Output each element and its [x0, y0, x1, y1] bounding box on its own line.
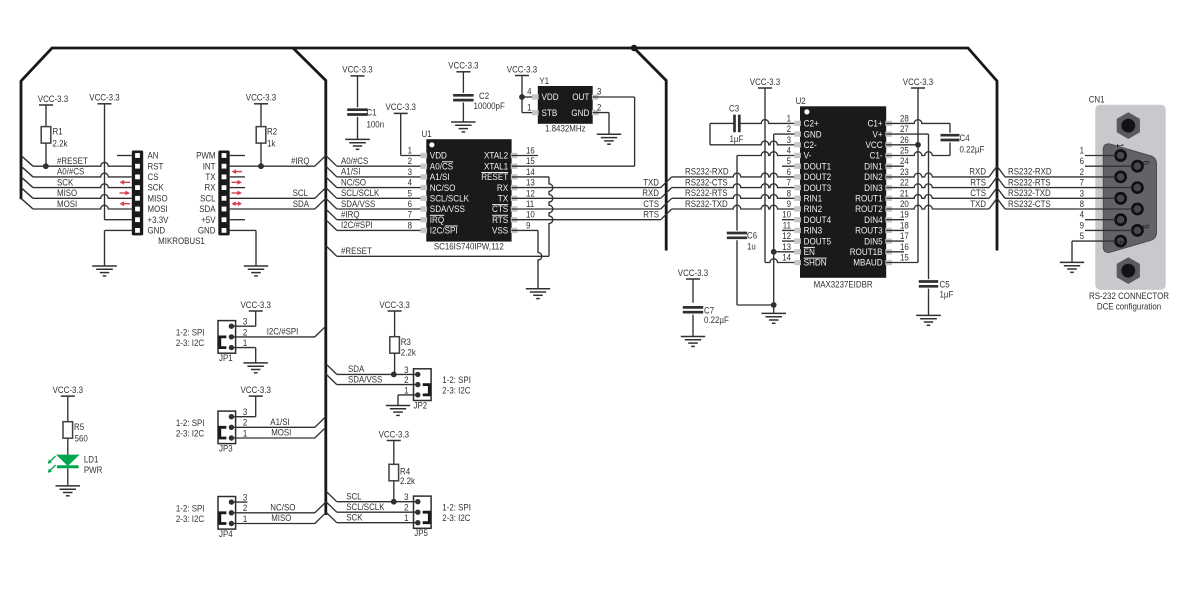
svg-text:4: 4 — [408, 178, 412, 188]
svg-text:1-2: SPI: 1-2: SPI — [176, 418, 205, 428]
svg-text:SCK: SCK — [148, 183, 164, 193]
svg-text:1: 1 — [243, 338, 247, 348]
svg-text:DIN2: DIN2 — [864, 172, 883, 182]
svg-text:ROUT1B: ROUT1B — [850, 247, 883, 257]
svg-text:TXD: TXD — [970, 199, 986, 209]
svg-text:9: 9 — [1141, 224, 1151, 228]
svg-text:DOUT1: DOUT1 — [804, 161, 832, 171]
svg-text:7: 7 — [787, 178, 791, 188]
svg-text:3: 3 — [597, 87, 601, 97]
svg-text:A0/CS: A0/CS — [430, 161, 453, 171]
svg-text:MOSI: MOSI — [148, 204, 168, 214]
svg-text:10: 10 — [782, 210, 791, 220]
svg-text:12: 12 — [782, 231, 791, 241]
svg-text:C6: C6 — [747, 230, 757, 240]
svg-text:5: 5 — [1115, 240, 1125, 244]
svg-text:12: 12 — [526, 188, 535, 198]
svg-text:19: 19 — [900, 210, 909, 220]
svg-text:EN: EN — [804, 247, 815, 257]
svg-text:CTS: CTS — [643, 199, 659, 209]
svg-text:1µF: 1µF — [940, 290, 954, 300]
svg-text:13: 13 — [782, 242, 791, 252]
svg-text:A1/SI: A1/SI — [270, 417, 289, 427]
svg-text:10: 10 — [526, 210, 535, 220]
svg-text:#RESET: #RESET — [57, 156, 88, 166]
svg-text:SCL/SCLK: SCL/SCLK — [346, 502, 384, 512]
svg-text:A1/SI: A1/SI — [430, 172, 450, 182]
svg-text:ROUT2: ROUT2 — [855, 204, 883, 214]
svg-text:SCL: SCL — [200, 193, 215, 203]
svg-text:SDA: SDA — [293, 199, 309, 209]
svg-text:3: 3 — [243, 317, 247, 327]
svg-text:#RESET: #RESET — [341, 246, 372, 256]
svg-text:A0/#CS: A0/#CS — [57, 167, 84, 177]
svg-text:2: 2 — [408, 156, 412, 166]
svg-text:OUT: OUT — [572, 92, 590, 102]
svg-text:2: 2 — [597, 102, 601, 112]
svg-text:#IRQ: #IRQ — [291, 156, 310, 166]
svg-text:SCK: SCK — [57, 177, 73, 187]
svg-text:RTS: RTS — [970, 177, 986, 187]
svg-text:20: 20 — [900, 199, 909, 209]
svg-text:GND: GND — [804, 129, 822, 139]
svg-text:SDA/VSS: SDA/VSS — [430, 204, 465, 214]
svg-text:SCK: SCK — [346, 512, 362, 522]
svg-text:1: 1 — [408, 146, 412, 156]
svg-text:VCC-3.3: VCC-3.3 — [38, 94, 68, 104]
svg-text:RTS: RTS — [492, 215, 508, 225]
svg-text:RS232-TXD: RS232-TXD — [1008, 188, 1051, 198]
svg-text:VCC-3.3: VCC-3.3 — [241, 385, 271, 395]
svg-text:8: 8 — [408, 220, 412, 230]
svg-text:0.22µF: 0.22µF — [704, 315, 729, 325]
svg-text:5: 5 — [408, 188, 412, 198]
svg-text:RTS: RTS — [643, 210, 659, 220]
svg-text:RS232-RXD: RS232-RXD — [1008, 167, 1052, 177]
svg-text:RS232-RTS: RS232-RTS — [1008, 177, 1051, 187]
svg-text:RST: RST — [148, 161, 164, 171]
svg-text:DCE configuration: DCE configuration — [1097, 301, 1161, 311]
svg-text:RIN1: RIN1 — [804, 194, 823, 204]
svg-text:RIN3: RIN3 — [804, 226, 823, 236]
svg-text:2.2k: 2.2k — [53, 139, 68, 149]
svg-text:1k: 1k — [267, 139, 276, 149]
svg-text:SHDN: SHDN — [804, 258, 827, 268]
svg-text:24: 24 — [900, 156, 909, 166]
svg-text:AN: AN — [148, 151, 159, 161]
svg-text:21: 21 — [900, 188, 909, 198]
svg-text:1: 1 — [404, 513, 408, 523]
svg-text:RS232-CTS: RS232-CTS — [1008, 199, 1051, 209]
svg-text:15: 15 — [900, 253, 909, 263]
svg-text:RS-232 CONNECTOR: RS-232 CONNECTOR — [1089, 291, 1169, 301]
svg-text:28: 28 — [900, 113, 909, 123]
svg-text:3: 3 — [404, 492, 408, 502]
svg-text:A0/#CS: A0/#CS — [341, 156, 368, 166]
svg-text:25: 25 — [900, 146, 909, 156]
svg-text:6: 6 — [408, 199, 412, 209]
svg-text:VCC: VCC — [866, 140, 884, 150]
svg-text:JP1: JP1 — [219, 353, 233, 363]
svg-text:DOUT3: DOUT3 — [804, 183, 832, 193]
svg-text:26: 26 — [900, 135, 909, 145]
svg-text:CTS: CTS — [970, 188, 986, 198]
svg-text:100n: 100n — [367, 119, 385, 129]
svg-text:3: 3 — [243, 493, 247, 503]
svg-text:VCC-3.3: VCC-3.3 — [903, 77, 933, 87]
svg-text:2.2k: 2.2k — [401, 348, 416, 358]
svg-text:R4: R4 — [400, 466, 410, 476]
svg-text:NC/SO: NC/SO — [341, 177, 366, 187]
svg-text:C1: C1 — [367, 107, 377, 117]
svg-text:+5V: +5V — [201, 215, 215, 225]
svg-text:1-2: SPI: 1-2: SPI — [176, 327, 205, 337]
svg-text:3: 3 — [787, 135, 791, 145]
svg-text:CS: CS — [148, 172, 159, 182]
svg-text:MOSI: MOSI — [57, 199, 77, 209]
svg-text:16: 16 — [526, 146, 535, 156]
svg-text:#IRQ: #IRQ — [341, 210, 360, 220]
svg-text:13: 13 — [526, 178, 535, 188]
svg-text:CTS: CTS — [492, 204, 508, 214]
svg-text:DIN4: DIN4 — [864, 215, 883, 225]
svg-text:XTAL1: XTAL1 — [484, 161, 508, 171]
svg-text:VCC-3.3: VCC-3.3 — [379, 429, 409, 439]
svg-text:16: 16 — [900, 242, 909, 252]
svg-text:8: 8 — [787, 188, 791, 198]
svg-text:TX: TX — [205, 172, 215, 182]
svg-text:R3: R3 — [401, 337, 411, 347]
svg-text:14: 14 — [526, 167, 535, 177]
svg-text:1.8432MHz: 1.8432MHz — [545, 124, 586, 134]
svg-text:VSS: VSS — [492, 226, 508, 236]
svg-text:VCC-3.3: VCC-3.3 — [750, 77, 780, 87]
svg-text:1: 1 — [243, 428, 247, 438]
svg-text:RS232-RXD: RS232-RXD — [685, 167, 729, 177]
svg-text:IRQ: IRQ — [430, 215, 444, 225]
svg-text:9: 9 — [787, 199, 791, 209]
svg-text:C2: C2 — [479, 91, 489, 101]
svg-text:6: 6 — [1141, 161, 1151, 165]
svg-text:ROUT3: ROUT3 — [855, 226, 883, 236]
svg-text:RS232-RTS: RS232-RTS — [685, 188, 728, 198]
svg-text:14: 14 — [782, 253, 791, 263]
svg-text:1u: 1u — [747, 242, 756, 252]
svg-text:1: 1 — [404, 385, 408, 395]
svg-text:VCC-3.3: VCC-3.3 — [678, 268, 708, 278]
svg-text:2: 2 — [787, 124, 791, 134]
svg-text:R2: R2 — [267, 127, 277, 137]
svg-text:DOUT2: DOUT2 — [804, 172, 832, 182]
svg-text:9: 9 — [526, 220, 530, 230]
svg-text:2: 2 — [404, 503, 408, 513]
svg-text:VCC-3.3: VCC-3.3 — [342, 65, 372, 75]
svg-text:I2C/#SPI: I2C/#SPI — [267, 327, 299, 337]
svg-text:VCC-3.3: VCC-3.3 — [241, 300, 271, 310]
svg-text:2-3: I2C: 2-3: I2C — [176, 429, 205, 439]
svg-text:I2C/#SPI: I2C/#SPI — [341, 220, 373, 230]
svg-text:4: 4 — [1080, 210, 1084, 220]
svg-text:17: 17 — [900, 231, 909, 241]
svg-text:SCL/SCLK: SCL/SCLK — [341, 188, 379, 198]
svg-text:SCL: SCL — [346, 491, 361, 501]
svg-text:RX: RX — [497, 183, 508, 193]
svg-text:U2: U2 — [796, 96, 806, 106]
svg-text:7: 7 — [1080, 178, 1084, 188]
svg-text:STB: STB — [542, 108, 558, 118]
svg-text:RX: RX — [205, 183, 216, 193]
svg-text:VCC-3.3: VCC-3.3 — [53, 385, 83, 395]
svg-text:DOUT5: DOUT5 — [804, 236, 832, 246]
svg-text:MIKROBUS1: MIKROBUS1 — [158, 236, 205, 246]
svg-text:4: 4 — [787, 146, 791, 156]
svg-text:DOUT4: DOUT4 — [804, 215, 832, 225]
svg-text:C5: C5 — [940, 280, 950, 290]
svg-text:VDD: VDD — [542, 92, 560, 102]
svg-text:SDA/VSS: SDA/VSS — [341, 199, 375, 209]
svg-text:LD1: LD1 — [84, 454, 99, 464]
svg-text:15: 15 — [526, 156, 535, 166]
svg-text:1µF: 1µF — [730, 134, 744, 144]
svg-text:JP2: JP2 — [414, 400, 428, 410]
svg-text:1: 1 — [527, 102, 531, 112]
svg-text:MISO: MISO — [148, 193, 168, 203]
svg-text:R1: R1 — [53, 127, 63, 137]
svg-text:1-2: SPI: 1-2: SPI — [176, 503, 205, 513]
svg-text:VCC-3.3: VCC-3.3 — [386, 102, 416, 112]
svg-text:2-3: I2C: 2-3: I2C — [176, 338, 205, 348]
svg-text:NC/SO: NC/SO — [430, 183, 456, 193]
svg-text:CN1: CN1 — [1089, 95, 1105, 105]
svg-text:PWR: PWR — [84, 465, 103, 475]
svg-text:27: 27 — [900, 124, 909, 134]
svg-text:MBAUD: MBAUD — [853, 258, 883, 268]
svg-text:GND: GND — [198, 226, 216, 236]
svg-text:C2+: C2+ — [804, 119, 819, 129]
svg-text:RS232-TXD: RS232-TXD — [685, 199, 728, 209]
svg-text:2: 2 — [243, 327, 247, 337]
svg-text:RIN2: RIN2 — [804, 204, 823, 214]
svg-text:2: 2 — [243, 418, 247, 428]
svg-text:2-3: I2C: 2-3: I2C — [442, 513, 471, 523]
svg-text:2-3: I2C: 2-3: I2C — [176, 514, 205, 524]
svg-text:C7: C7 — [704, 305, 714, 315]
svg-text:11: 11 — [526, 199, 534, 209]
svg-text:3: 3 — [1080, 188, 1084, 198]
svg-text:VDD: VDD — [430, 151, 448, 161]
svg-text:1: 1 — [1080, 146, 1084, 156]
svg-text:GND: GND — [148, 226, 166, 236]
svg-text:MISO: MISO — [57, 188, 77, 198]
svg-text:5: 5 — [787, 156, 791, 166]
svg-text:9: 9 — [1080, 220, 1084, 230]
svg-text:DIN1: DIN1 — [864, 161, 883, 171]
svg-text:SDA: SDA — [348, 364, 364, 374]
svg-text:C1+: C1+ — [868, 119, 883, 129]
svg-text:22: 22 — [900, 178, 909, 188]
svg-text:VCC-3.3: VCC-3.3 — [448, 61, 478, 71]
svg-text:11: 11 — [783, 220, 791, 230]
svg-text:7: 7 — [408, 210, 412, 220]
svg-text:INT: INT — [203, 161, 216, 171]
svg-text:4: 4 — [527, 87, 531, 97]
svg-text:SC16IS740IPW,112: SC16IS740IPW,112 — [434, 242, 504, 252]
svg-text:VCC-3.3: VCC-3.3 — [379, 300, 409, 310]
svg-text:3: 3 — [404, 365, 408, 375]
svg-text:23: 23 — [900, 167, 909, 177]
svg-text:MISO: MISO — [271, 513, 291, 523]
svg-text:SCL/SCLK: SCL/SCLK — [430, 194, 469, 204]
svg-text:2: 2 — [243, 503, 247, 513]
svg-text:NC/SO: NC/SO — [270, 503, 295, 513]
svg-text:+3.3V: +3.3V — [148, 215, 169, 225]
svg-text:JP3: JP3 — [219, 444, 233, 454]
svg-text:1-2: SPI: 1-2: SPI — [442, 503, 471, 513]
svg-text:2: 2 — [404, 375, 408, 385]
svg-text:V+: V+ — [873, 129, 883, 139]
svg-text:SCL: SCL — [293, 188, 308, 198]
svg-text:5: 5 — [1080, 231, 1084, 241]
svg-text:VCC-3.3: VCC-3.3 — [246, 93, 276, 103]
svg-text:2.2k: 2.2k — [400, 476, 415, 486]
svg-text:1-2: SPI: 1-2: SPI — [442, 375, 471, 385]
svg-text:0.22µF: 0.22µF — [960, 144, 985, 154]
svg-text:6: 6 — [1080, 156, 1084, 166]
svg-text:SDA/VSS: SDA/VSS — [348, 374, 382, 384]
svg-text:JP5: JP5 — [414, 528, 428, 538]
svg-text:RXD: RXD — [642, 188, 659, 198]
svg-text:1: 1 — [1115, 143, 1125, 147]
svg-text:2: 2 — [1080, 167, 1084, 177]
svg-text:DIN5: DIN5 — [864, 236, 883, 246]
svg-text:2-3: I2C: 2-3: I2C — [442, 385, 471, 395]
svg-text:Y1: Y1 — [539, 76, 549, 86]
svg-text:GND: GND — [571, 108, 589, 118]
svg-text:MOSI: MOSI — [271, 428, 291, 438]
svg-text:I2C/SPI: I2C/SPI — [430, 226, 458, 236]
svg-text:1: 1 — [787, 113, 791, 123]
svg-text:C1-: C1- — [870, 151, 883, 161]
svg-text:RESET: RESET — [481, 172, 508, 182]
svg-text:560: 560 — [75, 434, 88, 444]
svg-text:TXD: TXD — [643, 177, 659, 187]
svg-text:10000pF: 10000pF — [474, 101, 506, 111]
svg-text:V-: V- — [804, 151, 812, 161]
svg-text:C4: C4 — [960, 133, 970, 143]
svg-text:JP4: JP4 — [219, 529, 233, 539]
svg-text:18: 18 — [900, 220, 909, 230]
svg-text:8: 8 — [1080, 199, 1084, 209]
svg-text:A1/SI: A1/SI — [341, 167, 360, 177]
svg-text:XTAL2: XTAL2 — [484, 151, 508, 161]
svg-text:ROUT1: ROUT1 — [855, 194, 883, 204]
svg-text:VCC-3.3: VCC-3.3 — [89, 93, 119, 103]
svg-text:PWM: PWM — [196, 151, 215, 161]
svg-text:RS232-CTS: RS232-CTS — [685, 177, 728, 187]
svg-text:3: 3 — [243, 407, 247, 417]
svg-text:U1: U1 — [422, 129, 432, 139]
svg-text:SDA: SDA — [199, 204, 215, 214]
svg-text:R5: R5 — [74, 422, 84, 432]
svg-text:DIN3: DIN3 — [864, 183, 883, 193]
svg-text:VCC-3.3: VCC-3.3 — [507, 64, 537, 74]
svg-text:TX: TX — [498, 194, 508, 204]
svg-text:MAX3237EIDBR: MAX3237EIDBR — [814, 279, 873, 289]
svg-text:1: 1 — [243, 514, 247, 524]
svg-text:C2-: C2- — [804, 140, 817, 150]
svg-text:3: 3 — [408, 167, 412, 177]
svg-text:C3: C3 — [729, 104, 739, 114]
svg-text:6: 6 — [787, 167, 791, 177]
svg-text:RXD: RXD — [969, 167, 986, 177]
